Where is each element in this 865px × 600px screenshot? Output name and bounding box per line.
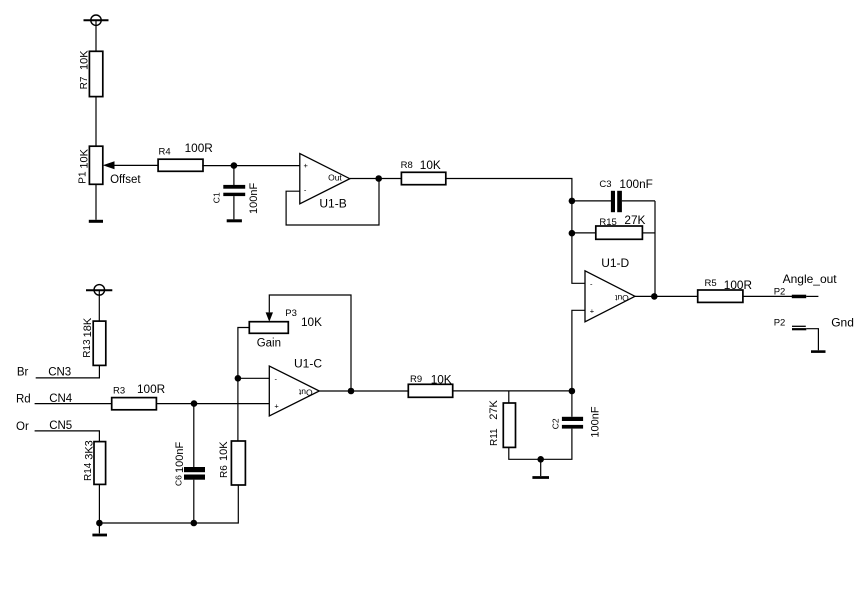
potentiometer P1 [78, 146, 115, 184]
svg-text:Out: Out [328, 172, 342, 182]
ground [227, 219, 242, 222]
svg-text:10K: 10K [431, 373, 452, 387]
ground [92, 534, 107, 537]
resistor R4 [158, 141, 213, 172]
svg-text:R8: R8 [401, 160, 413, 171]
node junction R9/C2 [569, 388, 576, 395]
svg-text:C1: C1 [212, 192, 222, 203]
resistor R3 [112, 382, 166, 410]
wire R7 to P1 [95, 97, 97, 147]
svg-text:P2: P2 [774, 287, 786, 298]
svg-text:10K: 10K [420, 158, 441, 172]
svg-text:U1-B: U1-B [319, 197, 346, 211]
wire R11 to ground node [509, 447, 541, 459]
wire CN5 to R14 [35, 431, 100, 442]
svg-text:U1-D: U1-D [601, 256, 629, 270]
wire R5 to P2 pin [743, 295, 792, 297]
wire R13 to CN3 [36, 365, 100, 378]
svg-text:Gain: Gain [257, 338, 281, 350]
wire C2 bottom to ground node [541, 429, 572, 460]
resistor R6 [218, 441, 245, 485]
svg-text:10K: 10K [301, 315, 322, 329]
resistor R13 [82, 317, 106, 365]
svg-text:R7: R7 [79, 76, 90, 89]
svg-text:CN3: CN3 [48, 367, 71, 379]
resistor R11 [488, 399, 516, 447]
svg-text:R4: R4 [159, 146, 171, 157]
svg-text:C2: C2 [551, 418, 561, 429]
svg-text:R13: R13 [82, 339, 93, 358]
svg-text:+: + [590, 306, 595, 315]
node junction U1-D out [651, 293, 658, 300]
wire bottom rail [99, 485, 238, 523]
node junction C6 bottom [191, 520, 198, 527]
node junction U1-C out [348, 388, 355, 395]
svg-text:27K: 27K [488, 399, 500, 419]
capacitor C2 [551, 406, 602, 437]
wire P3 left to U1-C minus [238, 328, 249, 442]
wire P1 wiper to R4 [113, 164, 159, 166]
wire C3 to right rail [622, 200, 655, 202]
svg-text:Offset: Offset [110, 174, 141, 186]
wire R9 to U1-D plus rail [453, 390, 572, 392]
ground [89, 220, 103, 223]
svg-text:100R: 100R [137, 382, 165, 396]
svg-text:27K: 27K [624, 213, 645, 227]
svg-text:Gnd: Gnd [831, 315, 854, 329]
wire U1-B feedback [286, 179, 379, 226]
wire junction to ground [98, 523, 100, 533]
svg-text:P1: P1 [78, 171, 89, 184]
resistor R5 [698, 278, 752, 302]
wire R4 to U1-B plus [202, 165, 299, 167]
wire R8 to U1-D minus [446, 179, 585, 284]
svg-text:R9: R9 [410, 374, 422, 385]
svg-text:P3: P3 [285, 308, 297, 319]
op-amp U1-D [585, 256, 635, 322]
wire U1-B output to R8 [350, 178, 402, 180]
svg-text:U1-C: U1-C [294, 356, 322, 370]
svg-text:100nF: 100nF [619, 177, 652, 191]
svg-text:Rd: Rd [16, 393, 31, 405]
svg-text:18K: 18K [82, 317, 94, 337]
ground [532, 476, 549, 479]
svg-text:100R: 100R [724, 278, 752, 292]
power symbol VCC1 [84, 15, 109, 25]
svg-text:C3: C3 [599, 179, 611, 190]
ground [811, 350, 826, 353]
wire R14 to bottom rail [98, 484, 100, 523]
resistor R8 [401, 158, 446, 185]
svg-text:100nF: 100nF [174, 442, 186, 473]
svg-text:R14: R14 [83, 462, 94, 481]
svg-text:R6: R6 [219, 465, 230, 478]
capacitor C3 [599, 177, 652, 212]
svg-text:Angle_out: Angle_out [783, 272, 838, 286]
wire junction to C6 [193, 404, 195, 467]
wire junction to C3 [572, 200, 611, 202]
svg-text:100nF: 100nF [248, 183, 260, 214]
wire P1 to ground [95, 184, 97, 220]
op-amp U1-C [269, 356, 322, 416]
wire P2 Gnd to ground [806, 329, 818, 351]
svg-text:10K: 10K [218, 441, 230, 461]
svg-text:3K3: 3K3 [83, 440, 95, 460]
node junction U1-C minus [235, 375, 242, 382]
wire C2 top [571, 391, 573, 417]
wire P3 feedback to U1-C out [269, 295, 351, 391]
svg-text:R15: R15 [599, 217, 616, 228]
svg-text:100R: 100R [185, 141, 213, 155]
node junction R15 [569, 230, 576, 237]
wire U1-C output to R9 [319, 390, 408, 392]
svg-text:100nF: 100nF [590, 406, 602, 437]
node junction C3 [569, 198, 576, 205]
node junction R4/C1 [231, 162, 238, 169]
svg-text:Or: Or [16, 421, 29, 433]
connector pin P2 Gnd [774, 317, 807, 329]
svg-text:R11: R11 [489, 428, 500, 446]
svg-text:10K: 10K [79, 50, 91, 70]
svg-text:P2: P2 [774, 317, 786, 328]
resistor R15 [596, 213, 646, 239]
svg-text:R5: R5 [705, 278, 717, 289]
svg-text:+: + [304, 161, 309, 170]
svg-text:Out: Out [298, 388, 312, 398]
wire CN4 to R3 [35, 403, 112, 405]
capacitor C1 [212, 183, 261, 214]
wire node to ground [540, 459, 542, 476]
connector pin P2 Angle_out [774, 287, 819, 299]
power symbol VCC2 [86, 285, 112, 296]
resistor R9 [408, 373, 452, 398]
node junction R3/C6 [191, 400, 198, 407]
capacitor C6 [174, 442, 205, 486]
svg-text:Br: Br [17, 367, 29, 379]
wire C6 to bottom rail [193, 480, 195, 523]
svg-text:R3: R3 [113, 386, 125, 397]
op-amp U1-B [300, 154, 350, 211]
svg-text:C6: C6 [174, 475, 184, 486]
svg-text:Out: Out [614, 293, 628, 303]
node junction U1-B out [375, 175, 382, 182]
wire VCC2 to R13 [98, 290, 100, 321]
wire junction to C1 [233, 166, 235, 185]
node junction ground [537, 456, 544, 463]
potentiometer P3 [249, 308, 322, 333]
svg-text:+: + [274, 402, 279, 411]
resistor R14 [83, 440, 105, 484]
wire VCC1 to R7 [95, 20, 97, 51]
wire right feedback rail [654, 201, 656, 297]
wire minus stub [238, 377, 269, 379]
wire U1-D plus input [572, 310, 585, 391]
wire junction to R15 [572, 232, 596, 234]
wire R3 to U1-C plus [156, 403, 269, 405]
wire R15 to right rail [642, 232, 655, 234]
wire junction to R11 [508, 391, 510, 403]
wire C1 to ground [233, 196, 235, 219]
node junction bottom left [96, 520, 103, 527]
resistor R7 [79, 50, 103, 97]
wire U1-D output [635, 295, 698, 297]
svg-text:10K: 10K [79, 148, 91, 168]
